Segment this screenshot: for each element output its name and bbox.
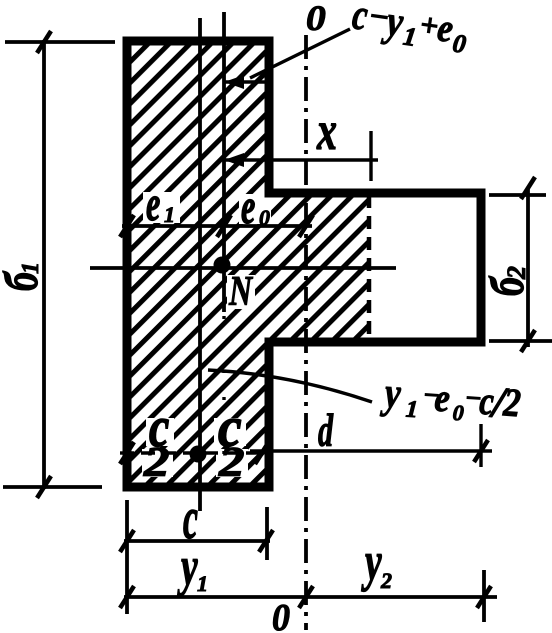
svg-text:N: N <box>228 269 254 315</box>
svg-text:2: 2 <box>380 568 392 593</box>
svg-text:y: y <box>177 537 198 598</box>
svg-text:1: 1 <box>405 397 419 424</box>
svg-text:0: 0 <box>452 400 465 426</box>
svg-text:1: 1 <box>197 571 208 596</box>
svg-text:0: 0 <box>306 0 326 39</box>
svg-text:2: 2 <box>218 439 245 486</box>
svg-text:y: y <box>380 367 403 418</box>
svg-text:y: y <box>361 532 382 593</box>
svg-text:1: 1 <box>164 202 175 227</box>
svg-text:e: e <box>146 177 160 231</box>
svg-text:d: d <box>318 406 333 457</box>
svg-text:0: 0 <box>272 596 290 633</box>
svg-text:2: 2 <box>501 381 522 426</box>
svg-text:0: 0 <box>259 205 270 230</box>
svg-text:2: 2 <box>502 266 531 280</box>
svg-text:e: e <box>433 376 451 421</box>
svg-text:1: 1 <box>401 22 418 53</box>
svg-text:2: 2 <box>143 439 170 486</box>
svg-text:1: 1 <box>18 262 44 274</box>
svg-text:x: x <box>316 101 337 162</box>
svg-text:0: 0 <box>451 28 468 59</box>
svg-text:e: e <box>241 180 255 234</box>
